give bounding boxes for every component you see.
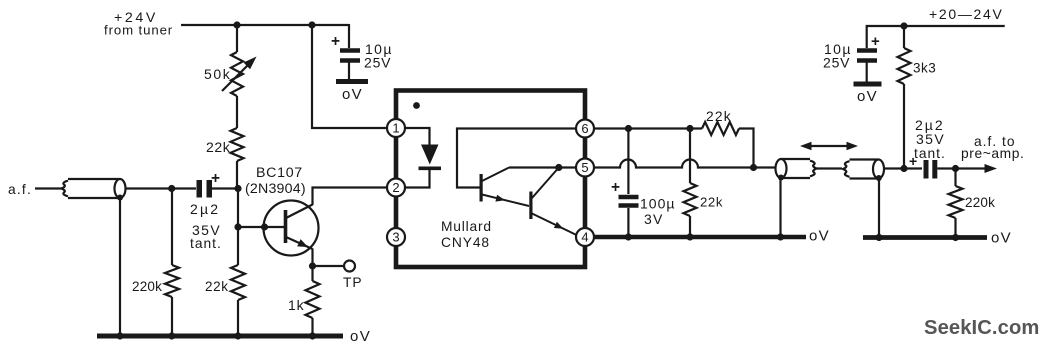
wire pin5 to cable with crossover humps <box>594 160 776 168</box>
capacitor C5 2u2 35V tant <box>924 160 938 179</box>
capacitor C4 10u 25V <box>857 51 877 82</box>
wire cable2 shield drop <box>779 177 781 237</box>
svg-text:3k3: 3k3 <box>913 61 936 76</box>
node junction base tap <box>234 223 241 230</box>
resistor R6 label 22k <box>706 109 732 124</box>
svg-text:35V: 35V <box>916 131 945 147</box>
wire between cables <box>817 167 843 169</box>
resistor R8 3k3 <box>898 26 911 169</box>
U1 internal wire pin6 to photobase <box>457 129 576 188</box>
bidirectional arrow symbol <box>800 142 858 150</box>
resistor R6 22k horizontal <box>702 122 739 135</box>
wire C3 branch lower <box>627 208 629 237</box>
wire C5 to output node <box>937 167 955 169</box>
capacitor C4 10u 25V plus sign <box>871 33 880 50</box>
ground 0V terminal of C1 <box>336 82 368 104</box>
U1 label Mullard CNY48 <box>441 219 492 250</box>
capacitor C2 value label <box>190 201 222 251</box>
transistor Q1 BC107 label <box>245 165 306 197</box>
svg-text:+20—24V: +20—24V <box>929 6 1004 22</box>
ground label 0V right <box>991 230 1012 247</box>
svg-text:220k: 220k <box>132 279 162 294</box>
wire base BC107 <box>238 226 284 228</box>
ground rail 0V middle <box>594 235 806 240</box>
resistor R3 220k <box>165 189 179 337</box>
node rail junction shield <box>116 332 123 339</box>
potentiometer R1 50k <box>231 52 243 96</box>
node rail junction 22k <box>234 332 241 339</box>
svg-text:25V: 25V <box>823 55 850 71</box>
node junction base wire on circle <box>261 223 268 230</box>
svg-text:oV: oV <box>350 328 371 345</box>
potentiometer R1 arrow <box>222 57 257 92</box>
wire R7 branch lower <box>689 216 691 237</box>
svg-text:22k: 22k <box>205 279 229 294</box>
U1 internal LED <box>405 128 441 188</box>
U1 pin 3 <box>387 228 405 246</box>
capacitor C5 value label <box>914 117 946 161</box>
U1 pin 5 <box>576 159 594 177</box>
ground label oV bottom left <box>350 328 371 345</box>
node rail junction C3 <box>625 233 632 240</box>
terminal TP circle <box>344 261 355 272</box>
svg-text:+: + <box>331 33 340 50</box>
shielded cable input <box>62 179 126 198</box>
node rail junction cable3 shield <box>875 234 882 241</box>
input label a.f. <box>8 182 32 197</box>
node junction supply / 3k3 <box>900 22 907 29</box>
U1 pin 4 <box>576 228 594 246</box>
shielded cable link left <box>776 159 817 178</box>
node junction output / 220k <box>952 165 959 172</box>
svg-text:+: + <box>211 170 220 187</box>
svg-text:(2N3904): (2N3904) <box>245 181 306 197</box>
resistor R4 22k lower <box>231 227 245 336</box>
wire cable3 shield drop <box>878 178 880 238</box>
svg-text:5: 5 <box>581 160 588 175</box>
net +20-24V supply label <box>929 6 1004 22</box>
resistor R5 label 1k <box>288 297 305 313</box>
capacitor C2 2u2 35V tant <box>197 180 213 198</box>
node junction divider / C2 <box>234 185 241 192</box>
wire cable3 to coupling cap <box>884 167 922 169</box>
capacitor C2 2u2 tant plus sign <box>211 170 220 187</box>
svg-text:pre~amp.: pre~amp. <box>961 146 1024 161</box>
wire pin1 feed <box>312 25 388 128</box>
wire input shield drop <box>119 197 121 336</box>
wire R6 to pin5 wire <box>739 129 754 168</box>
node junction pin6 wire / R7 <box>686 125 693 132</box>
wire a.f. input <box>35 187 63 189</box>
capacitor C1 10u 25V <box>340 51 360 80</box>
resistor R2 label 22k <box>206 139 231 155</box>
svg-text:22k: 22k <box>700 195 723 210</box>
U1 pin 6 <box>576 120 594 138</box>
resistor R3 label 220k <box>132 279 162 294</box>
wire +20-24V top rail <box>867 26 1005 48</box>
svg-text:oV: oV <box>857 88 878 105</box>
wire to TP <box>313 265 345 267</box>
svg-text:a.f.: a.f. <box>8 182 32 197</box>
svg-text:100µ: 100µ <box>640 196 675 212</box>
resistor R7 label 22k <box>700 195 723 210</box>
capacitor C5 2u2 35V tant plus sign <box>909 153 917 169</box>
svg-text:+: + <box>871 33 880 50</box>
ground label oV middle <box>809 228 830 245</box>
ground 0V terminal of C4 <box>854 84 882 105</box>
node cable3 shield junction <box>876 175 882 181</box>
svg-text:TP: TP <box>343 275 363 290</box>
svg-text:3V: 3V <box>644 211 664 227</box>
node rail junction 1k <box>309 332 316 339</box>
U1 pin 2 <box>387 179 405 197</box>
shielded cable link right <box>843 160 884 179</box>
node junction emitter / TP / 1k <box>309 262 316 269</box>
node junction +24V / pin1 feed <box>308 21 315 28</box>
watermark SeekIC.com <box>924 317 1039 339</box>
output label a.f. to pre-amp <box>961 134 1024 161</box>
U1 internal phototransistor T1 <box>480 168 530 207</box>
svg-text:oV: oV <box>991 230 1012 247</box>
svg-text:22k: 22k <box>706 109 732 124</box>
node junction pin5 wire / R6 <box>750 164 757 171</box>
node junction pin6 wire / C3 <box>625 125 632 132</box>
capacitor C3 100u 3V plus sign <box>611 179 620 196</box>
svg-text:oV: oV <box>342 86 363 103</box>
node rail junction cable2 shield <box>777 233 784 240</box>
svg-text:tant.: tant. <box>914 146 946 161</box>
U1 pin 1 <box>387 119 405 137</box>
wire cable to C2 <box>126 187 197 189</box>
resistor R5 1k <box>306 266 320 336</box>
capacitor C1 10u 25V plus sign <box>331 33 340 50</box>
node junction 3k3 / output line <box>900 165 907 172</box>
svg-text:25V: 25V <box>364 55 391 71</box>
svg-text:3: 3 <box>392 230 399 245</box>
wire collector BC107 to pin2 <box>313 188 389 206</box>
svg-text:Mullard: Mullard <box>441 219 492 234</box>
ground rail 0V right <box>863 235 987 240</box>
capacitor C1 value label <box>364 41 393 71</box>
svg-text:6: 6 <box>581 121 588 136</box>
svg-text:CNY48: CNY48 <box>441 235 490 250</box>
capacitor C4 value label <box>823 41 852 71</box>
wire R7 branch upper <box>689 129 691 184</box>
wire C2 to divider node <box>212 187 238 189</box>
ground rail 0V bottom left <box>97 334 343 339</box>
node rail junction 220k <box>168 332 175 339</box>
capacitor C3 value label <box>640 196 675 228</box>
resistor R9 220k <box>949 169 963 238</box>
svg-text:4: 4 <box>581 230 588 245</box>
U1 internal collector wire to pin5 <box>509 166 576 168</box>
svg-text:SeekIC.com: SeekIC.com <box>924 317 1039 339</box>
svg-text:1k: 1k <box>288 297 305 313</box>
wire emitter BC107 down <box>311 249 313 267</box>
wire supply to 50k <box>236 25 238 52</box>
terminal TP label <box>343 275 363 290</box>
wire 50k to 22k <box>236 96 238 128</box>
resistor R2 22k upper <box>231 128 244 161</box>
svg-text:50k: 50k <box>204 66 231 82</box>
node U1 internal collector junction <box>555 164 562 171</box>
svg-text:+: + <box>611 179 620 196</box>
node junction +24V / 50k <box>233 21 240 28</box>
node rail junction R9 <box>952 234 959 241</box>
U1 pin1 orientation dot <box>413 102 420 109</box>
resistor R8 label 3k3 <box>913 61 936 76</box>
wire C3 branch upper <box>627 129 629 195</box>
wire +24V top rail <box>181 24 349 48</box>
svg-text:2: 2 <box>392 180 399 195</box>
node input cable shield junction <box>117 195 123 201</box>
node cable2 shield junction <box>778 175 784 181</box>
potentiometer R1 label 50k <box>204 66 231 82</box>
svg-text:2µ2: 2µ2 <box>190 201 220 217</box>
transistor Q1 BC107 <box>264 201 319 256</box>
output arrow a.f. to pre-amp <box>956 164 998 173</box>
wire 22k to base node <box>236 161 238 189</box>
U1 internal phototransistor T2 <box>529 168 576 236</box>
resistor R4 label 22k <box>205 279 229 294</box>
op-amp U1 optocoupler CNY48 package outline <box>396 91 585 268</box>
svg-text:tant.: tant. <box>190 236 222 251</box>
svg-text:220k: 220k <box>965 195 995 210</box>
svg-text:1: 1 <box>392 121 399 136</box>
svg-text:BC107: BC107 <box>256 165 303 181</box>
svg-text:oV: oV <box>809 228 830 245</box>
resistor R7 22k vertical <box>684 183 697 216</box>
resistor R9 label 220k <box>965 195 995 210</box>
svg-text:22k: 22k <box>206 139 231 155</box>
net +24V supply label <box>104 10 173 38</box>
node rail junction R7 <box>686 233 693 240</box>
wire divider node to base node <box>237 189 239 228</box>
node junction input / 220k <box>168 185 175 192</box>
svg-text:from tuner: from tuner <box>104 23 173 38</box>
capacitor C3 100u 3V <box>619 197 639 206</box>
wire pin6 to 22k <box>594 127 702 129</box>
